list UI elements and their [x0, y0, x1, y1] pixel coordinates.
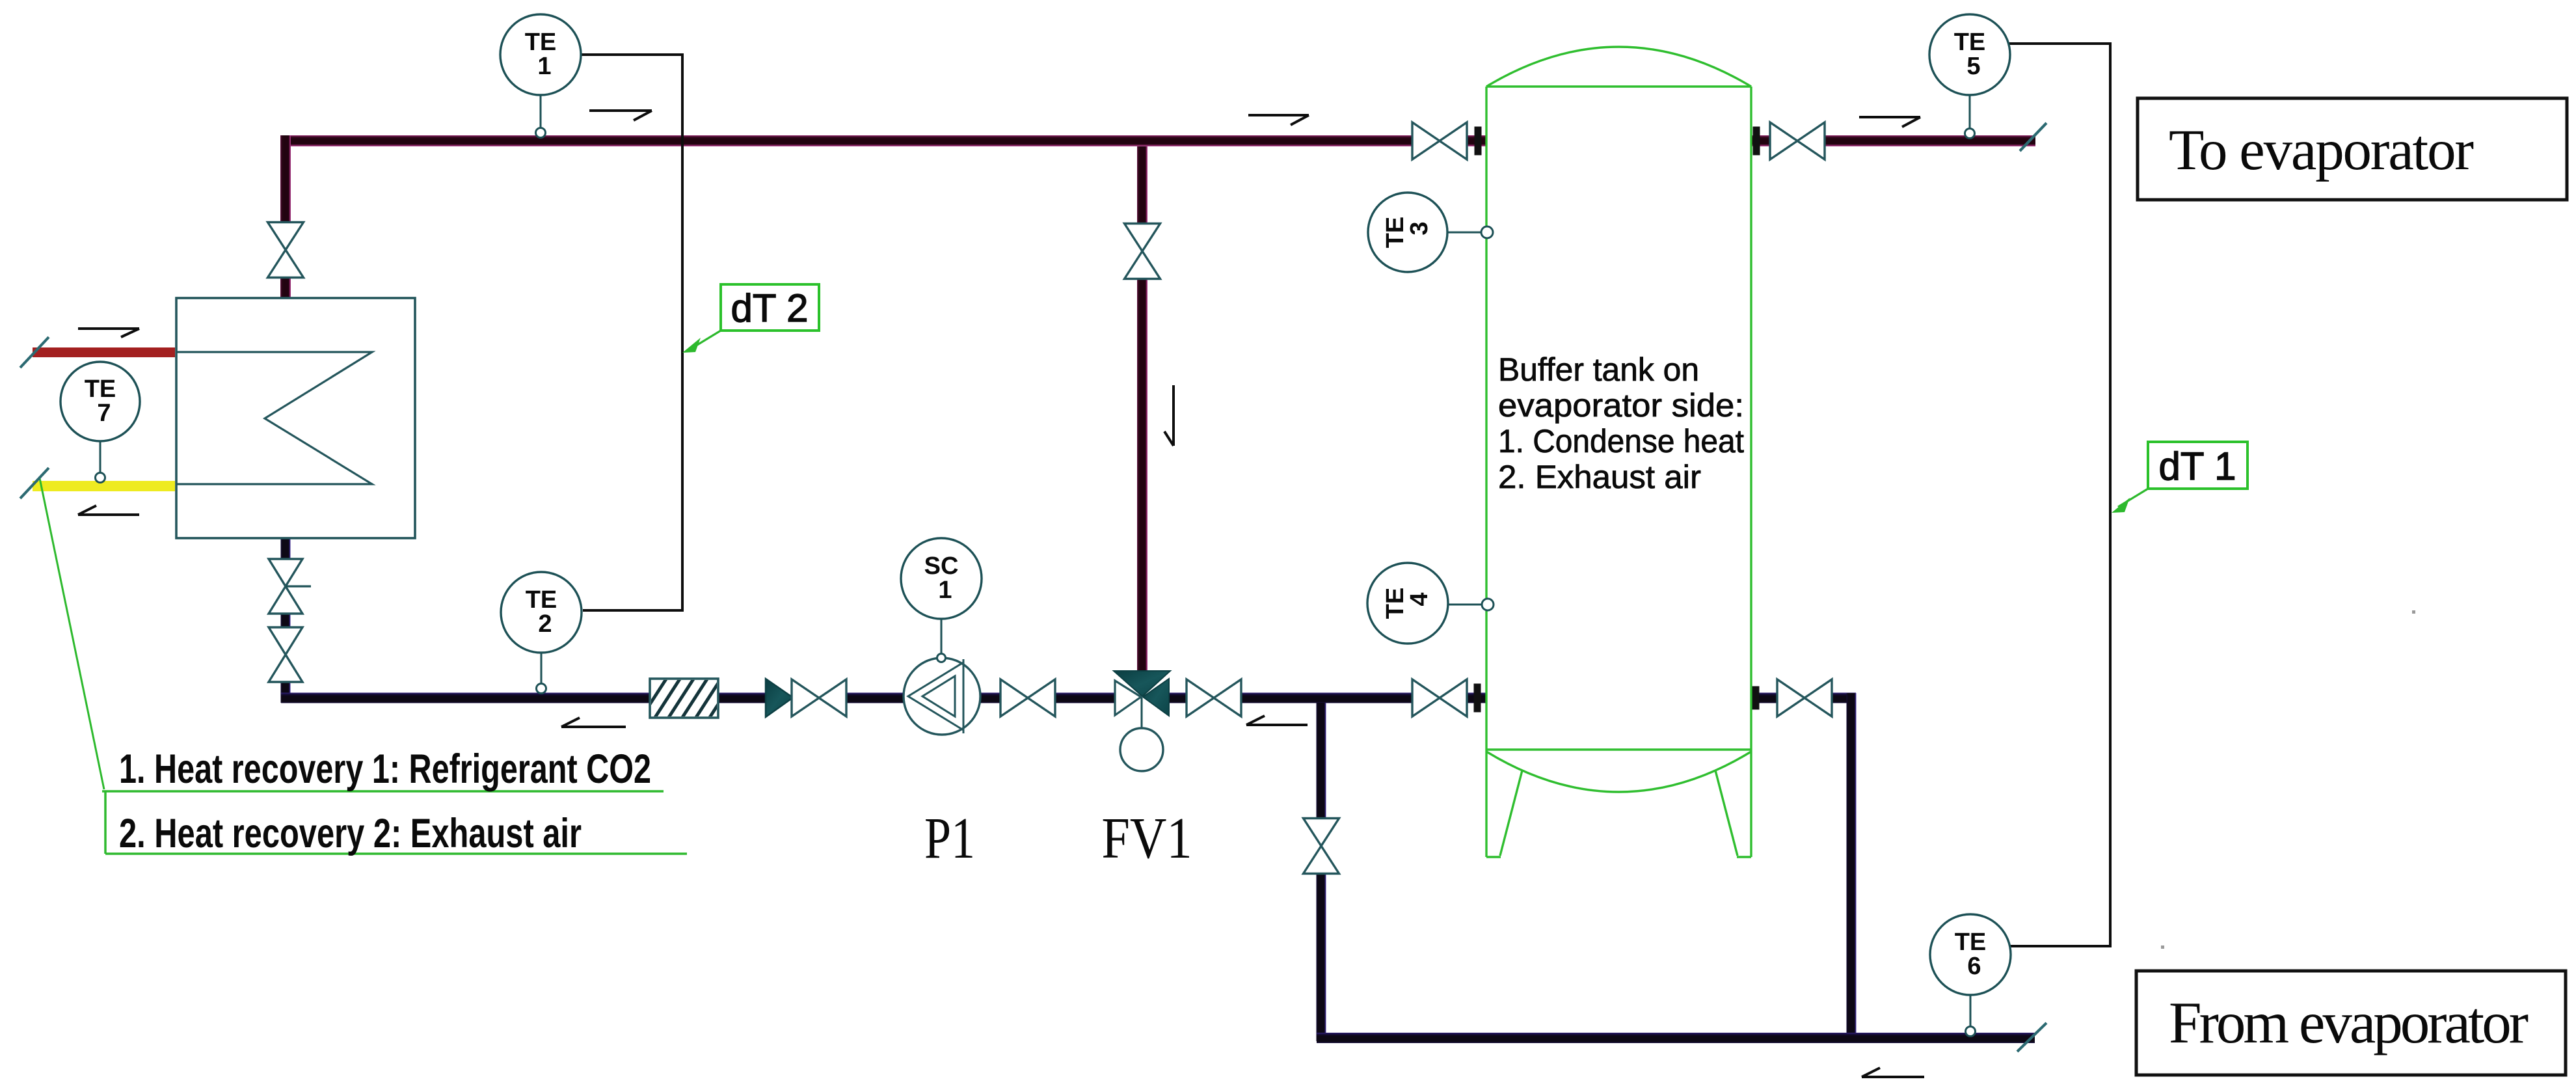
svg-text:6: 6	[1967, 953, 1981, 980]
svg-text:TE: TE	[526, 586, 557, 614]
svg-text:FV1: FV1	[1101, 806, 1192, 871]
svg-text:TE: TE	[1382, 217, 1409, 249]
svg-text:dT 2: dT 2	[731, 286, 809, 330]
svg-text:TE: TE	[1955, 929, 1987, 956]
svg-text:7: 7	[97, 400, 111, 427]
svg-text:SC: SC	[924, 552, 959, 580]
svg-text:From evaporator: From evaporator	[2169, 990, 2529, 1055]
svg-text:1: 1	[537, 53, 551, 80]
svg-text:1. Heat recovery 1: Refrigeran: 1. Heat recovery 1: Refrigerant CO2	[119, 746, 651, 792]
svg-text:P1: P1	[924, 806, 975, 871]
svg-text:5: 5	[1966, 53, 1980, 80]
svg-text:To evaporator: To evaporator	[2169, 118, 2473, 182]
svg-text:TE: TE	[1954, 29, 1986, 56]
svg-text:2. Exhaust air: 2. Exhaust air	[1498, 459, 1701, 495]
svg-text:evaporator side:: evaporator side:	[1498, 387, 1744, 424]
svg-text:3: 3	[1406, 221, 1433, 235]
svg-text:4: 4	[1406, 592, 1433, 606]
svg-text:Buffer tank on: Buffer tank on	[1498, 351, 1699, 388]
svg-text:dT 1: dT 1	[2159, 444, 2236, 488]
svg-text:TE: TE	[525, 29, 557, 56]
svg-text:TE: TE	[85, 375, 116, 403]
svg-text:2. Heat recovery 2: Exhaust ai: 2. Heat recovery 2: Exhaust air	[119, 811, 582, 856]
svg-text:2: 2	[538, 610, 552, 638]
svg-text:1. Condense heat: 1. Condense heat	[1498, 423, 1744, 459]
svg-text:1: 1	[938, 577, 952, 604]
svg-text:TE: TE	[1382, 588, 1409, 619]
